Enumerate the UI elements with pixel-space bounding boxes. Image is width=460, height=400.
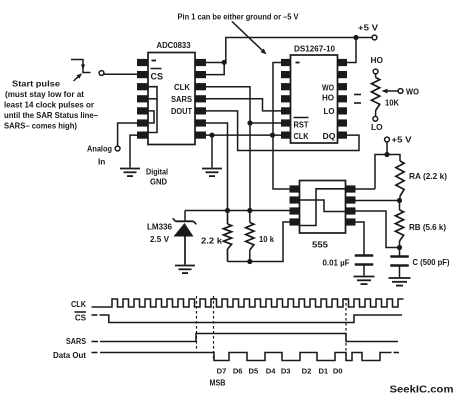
svg-text:LO: LO	[324, 106, 335, 116]
label WO	[406, 87, 419, 97]
label C 500pF	[413, 258, 450, 267]
wire ADC SARS to DS pin5	[206, 99, 281, 111]
ground symbol below LM336	[175, 266, 195, 274]
label 10k	[259, 234, 274, 244]
svg-text:D0: D0	[333, 367, 343, 376]
resistor 10k	[246, 211, 254, 262]
svg-text:RST: RST	[294, 121, 309, 130]
label LO	[371, 122, 383, 132]
connection dashes DS to pot	[354, 95, 361, 104]
IC U2 pin DQ label	[323, 131, 336, 141]
resistor RB 5.6k	[395, 201, 403, 248]
timing dashed line at SARS rise	[196, 296, 198, 351]
svg-text:2.2 k: 2.2 k	[201, 236, 222, 246]
wire vref node bus	[185, 210, 300, 212]
IC U1 pin CLK label	[174, 82, 191, 92]
IC U1 internal tie pins 3-4-7	[148, 87, 157, 133]
wire +5V down to DS right pin1	[347, 38, 356, 63]
IC U1 ADC0833 body	[148, 53, 195, 145]
svg-text:LM336: LM336	[147, 222, 172, 232]
watermark SeekIC.com	[390, 385, 454, 396]
IC U1 pin CS label (active low)	[151, 69, 164, 82]
svg-text:D6: D6	[233, 367, 243, 376]
node junction 2.2k top	[225, 208, 230, 213]
wire ADC right pin1 to junction	[206, 62, 227, 64]
terminal start pulse	[99, 71, 104, 76]
label RA	[409, 172, 447, 181]
label 10K	[385, 99, 399, 108]
timing dashed line at D0	[345, 298, 347, 361]
waveform CLK	[92, 299, 404, 307]
label CS timing (active low)	[75, 312, 87, 323]
IC U3 555 body	[300, 181, 346, 234]
label RB	[409, 223, 446, 232]
potentiometer 10K body	[372, 74, 380, 117]
wire +5V mid down	[386, 142, 388, 155]
label LM336 2.5V	[147, 222, 172, 245]
note pin1 arrow	[232, 22, 267, 55]
IC U2 pin1 mark	[296, 62, 300, 64]
wire 555 right pin4 to 0.01uF	[356, 222, 365, 256]
label CLK timing	[71, 300, 86, 309]
svg-text:DS1267-10: DS1267-10	[294, 44, 335, 54]
label Data Out timing	[53, 351, 86, 360]
node junction 10k bottom	[247, 259, 252, 264]
svg-text:+5 V: +5 V	[392, 136, 413, 145]
terminal +5V top	[372, 35, 377, 40]
capacitor 0.01uF	[355, 256, 374, 276]
IC U2 pin LO label	[324, 106, 335, 116]
svg-text:RB (5.6 k): RB (5.6 k)	[409, 223, 446, 232]
label HO	[371, 55, 384, 65]
wire 555 right pin3 to RB bottom	[356, 211, 400, 248]
wire +5V top rail	[226, 38, 372, 63]
note pin1 text	[178, 13, 300, 22]
node junction ground bus / DS pin1	[270, 133, 275, 138]
IC U2 pin RST label (active low)	[294, 118, 309, 130]
node junction +5V to DS pin16	[353, 35, 358, 40]
svg-text:SARS: SARS	[171, 94, 192, 104]
node junction ground bus left	[209, 133, 214, 138]
annotation arrow to start pulse	[74, 73, 83, 81]
svg-text:In: In	[98, 157, 105, 167]
svg-text:HO: HO	[371, 55, 384, 65]
svg-text:Data Out: Data Out	[53, 351, 86, 360]
svg-text:D1: D1	[318, 367, 328, 376]
start pulse step symbol	[71, 60, 91, 73]
wire start pulse to CS pin	[104, 73, 137, 75]
svg-text:WO: WO	[406, 87, 419, 97]
waveform CS	[92, 315, 403, 323]
svg-text:Digital: Digital	[146, 167, 168, 177]
svg-text:DOUT: DOUT	[171, 106, 193, 116]
pot wiper arrow	[382, 89, 399, 94]
svg-text:+5 V: +5 V	[358, 24, 379, 33]
terminal pot HO	[373, 69, 378, 74]
wire 555 right pin1 to +5V branch	[356, 188, 376, 190]
svg-text:SeekIC.com: SeekIC.com	[390, 385, 454, 396]
IC U1 right pins	[195, 59, 206, 139]
svg-text:MSB: MSB	[210, 379, 226, 388]
svg-text:RA (2.2 k): RA (2.2 k)	[409, 172, 447, 181]
wire ground bus ADC pin7 to DS CLK	[206, 134, 281, 136]
node junction RA/555 pin7	[397, 198, 402, 203]
svg-text:Analog: Analog	[87, 144, 112, 154]
svg-text:10 k: 10 k	[259, 234, 274, 244]
IC U2 right pins	[338, 59, 348, 139]
resistor RA 2.2k	[396, 161, 404, 196]
label 0.01uF	[323, 259, 350, 268]
label Digital GND	[146, 167, 168, 187]
svg-text:CLK: CLK	[294, 132, 309, 141]
node junction RB/C/555 pin6	[397, 245, 402, 250]
waveform SARS	[92, 334, 399, 342]
svg-text:Start pulse: Start pulse	[12, 79, 60, 89]
IC U2 pin WO label	[322, 83, 334, 93]
ground symbol digital gnd	[120, 169, 140, 177]
waveform Data Out	[92, 353, 400, 361]
note start pulse text	[4, 79, 98, 131]
svg-text:D3: D3	[281, 367, 291, 376]
wire ADC right pin2 riser	[206, 64, 224, 75]
wire junction to DS RST pin	[250, 122, 281, 124]
svg-text:D5: D5	[249, 367, 259, 376]
svg-text:DQ: DQ	[323, 131, 336, 141]
IC U2 label DS1267-10	[294, 44, 335, 54]
wire 555 right pin2 to RA bottom	[356, 200, 400, 202]
node junction CLK/RST	[247, 120, 252, 125]
svg-text:SARS: SARS	[66, 337, 87, 346]
capacitor C 500pF	[390, 248, 409, 278]
IC U3 left pins	[290, 185, 300, 225]
ground symbol below 0.01uF	[354, 277, 375, 285]
label Analog In	[87, 144, 112, 167]
IC U2 left pins	[281, 59, 291, 139]
wire ADC DOUT to DS DQ	[206, 111, 359, 151]
svg-text:2.5 V: 2.5 V	[150, 234, 169, 244]
svg-text:(must stay low for at: (must stay low for at	[5, 89, 84, 99]
wire analog in to ADC pin6	[118, 123, 137, 146]
IC U2 pin HO label	[322, 93, 334, 103]
svg-text:C (500 pF): C (500 pF)	[413, 258, 450, 267]
diode LM336 2.5V zener	[173, 211, 197, 265]
svg-text:until the SAR Status line–: until the SAR Status line–	[4, 110, 98, 120]
svg-text:CS: CS	[75, 314, 87, 323]
resistor 2.2k	[223, 211, 231, 262]
svg-text:Pin 1 can be either ground or: Pin 1 can be either ground or –5 V	[178, 13, 300, 22]
wire ADC CLK to DS RST and 10k	[206, 87, 250, 211]
label SARS timing	[66, 337, 87, 346]
svg-text:HO: HO	[322, 93, 334, 103]
svg-text:WO: WO	[322, 83, 334, 93]
timing dashed line at D7	[213, 296, 215, 360]
node junction +5V mid	[384, 152, 389, 157]
terminal analog in	[115, 146, 120, 151]
node junction 10k top	[247, 208, 252, 213]
svg-text:555: 555	[312, 240, 328, 250]
node junction ADC pin1/pin2 +5V	[222, 60, 227, 65]
svg-text:ADC0833: ADC0833	[157, 40, 191, 50]
label 2.2k	[201, 236, 222, 246]
wire +5V node to RA and 555 pin8	[375, 155, 400, 190]
svg-text:GND: GND	[150, 177, 167, 187]
IC U2 DS1267-10 body	[291, 55, 338, 143]
svg-text:CLK: CLK	[71, 300, 86, 309]
IC U3 right pins	[346, 185, 356, 225]
terminal pot wiper WO	[398, 89, 403, 94]
IC U2 pin CLK label	[294, 132, 309, 141]
svg-text:10K: 10K	[385, 99, 399, 108]
wire ADC pin7 to digital ground	[130, 135, 137, 167]
wire DS pin1 down to ground bus and 555 pin1	[273, 63, 290, 190]
ground symbol right of ADC	[202, 169, 222, 177]
svg-text:least 14 clock pulses or: least 14 clock pulses or	[4, 100, 95, 110]
svg-text:SARS– comes high): SARS– comes high)	[4, 121, 77, 131]
IC U1 pin1 mark	[152, 60, 157, 62]
terminal pot LO	[373, 116, 378, 121]
svg-text:LO: LO	[371, 122, 383, 132]
svg-text:D2: D2	[302, 367, 312, 376]
label +5V top	[358, 24, 379, 33]
IC U3 internal wire pin4-pin1	[300, 189, 346, 226]
wire ADC pin6right down to vref node	[206, 123, 228, 211]
IC U3 label 555	[312, 240, 328, 250]
svg-text:D4: D4	[266, 367, 276, 376]
wire RA bottom	[399, 196, 401, 201]
wire resistor bottoms to 555 pin2	[228, 222, 290, 262]
svg-text:CS: CS	[151, 72, 164, 82]
svg-text:CLK: CLK	[174, 82, 191, 92]
IC U1 pin SARS label	[171, 94, 192, 104]
IC U1 internal tie pins 5-6	[148, 111, 154, 123]
terminal +5V mid	[385, 137, 390, 142]
IC U1 pin DOUT label	[171, 106, 193, 116]
IC U1 label ADC0833	[157, 40, 191, 50]
ground symbol below C	[389, 278, 411, 286]
IC U3 internal wire pin2-pin3	[300, 200, 346, 212]
labels D7-D0	[217, 367, 343, 376]
IC U1 left pins 1-7	[137, 59, 148, 139]
label +5V mid	[392, 136, 413, 145]
svg-text:D7: D7	[217, 367, 227, 376]
wire junction down to ground	[211, 135, 213, 167]
svg-text:0.01 µF: 0.01 µF	[323, 259, 350, 268]
label MSB	[210, 379, 226, 388]
